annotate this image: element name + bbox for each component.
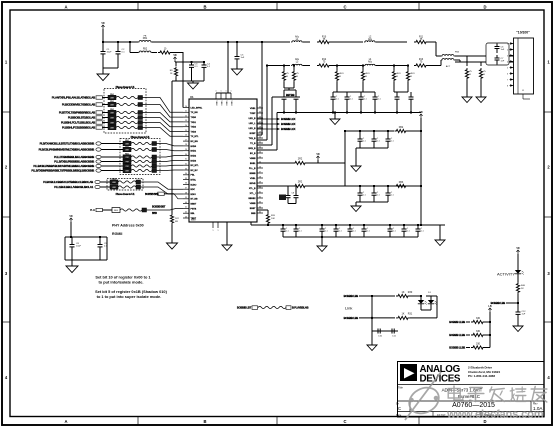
svg-text:LED_B: LED_B — [249, 118, 256, 120]
svg-text:R30: R30 — [408, 291, 413, 294]
svg-text:RN1: RN1 — [125, 162, 129, 164]
svg-text:TX_B: TX_B — [250, 143, 256, 145]
svg-text:BBBT: BBBT — [250, 208, 256, 210]
svg-text:BBBT: BBBT — [191, 204, 197, 206]
svg-text:PLL1/BHLBBLL/VBBCBL/BOLA1: PLL1/BHLBBLL/VBBCBL/BOLA1 — [54, 185, 93, 189]
svg-text:46: 46 — [259, 116, 261, 118]
svg-text:PLLB/TXBL/PBBB/BBLA/BBOBBIB: PLLB/TXBL/PBBB/BBLA/BBOBBIB — [54, 160, 94, 164]
svg-text:52: 52 — [259, 146, 261, 148]
svg-text:RN1: RN1 — [125, 158, 129, 160]
svg-text:"10/100": "10/100" — [516, 31, 530, 35]
svg-text:59: 59 — [259, 181, 261, 183]
svg-text:32: 32 — [185, 164, 187, 166]
svg-text:20: 20 — [185, 106, 187, 108]
svg-text:BXB1: BXB1 — [191, 151, 197, 153]
svg-text:44: 44 — [259, 106, 261, 108]
svg-text:BLB: BLB — [114, 210, 118, 212]
svg-text:50: 50 — [259, 136, 261, 138]
svg-text:TXBP: TXBP — [250, 113, 256, 115]
svg-text:BT_BB: BT_BB — [191, 199, 198, 201]
svg-text:5: 5 — [507, 67, 508, 69]
svg-text:C: C — [343, 419, 346, 424]
svg-text:B: B — [203, 419, 206, 424]
svg-text:RN1: RN1 — [110, 109, 114, 111]
svg-text:42: 42 — [185, 212, 187, 214]
svg-text:41: 41 — [185, 207, 187, 209]
svg-text:R11: R11 — [419, 37, 424, 39]
svg-text:VBB1: VBB1 — [250, 108, 256, 110]
svg-text:38: 38 — [185, 192, 187, 194]
svg-text:PLB/BOBLBT1/BOLAB: PLB/BOBLBT1/BOLAB — [68, 116, 95, 120]
svg-text:Place close to U1: Place close to U1 — [116, 85, 135, 89]
svg-text:www.elecfans.com: www.elecfans.com — [446, 409, 544, 421]
svg-text:Title: Title — [398, 386, 403, 390]
svg-text:53: 53 — [259, 151, 261, 153]
svg-text:58: 58 — [259, 176, 261, 178]
svg-text:33: 33 — [185, 168, 187, 170]
svg-text:56: 56 — [259, 166, 261, 168]
svg-text:BBB: BBB — [251, 213, 256, 215]
svg-text:RGMII: RGMII — [112, 232, 122, 236]
svg-text:FB2: FB2 — [143, 49, 148, 51]
svg-text:28: 28 — [185, 144, 187, 146]
svg-text:330: 330 — [476, 330, 481, 333]
svg-text:RN1: RN1 — [110, 114, 114, 116]
svg-text:1: 1 — [218, 230, 219, 232]
svg-text:VBB0: VBB0 — [215, 101, 217, 107]
svg-text:1nF: 1nF — [501, 49, 505, 51]
svg-text:Date: Date — [396, 414, 402, 417]
svg-text:21: 21 — [185, 111, 187, 113]
svg-text:2R2: 2R2 — [298, 158, 303, 161]
svg-text:BXB3: BXB3 — [191, 160, 197, 162]
svg-text:24: 24 — [185, 125, 187, 127]
svg-text:1: 1 — [507, 43, 508, 45]
svg-text:BOBBIB LBT: BOBBIB LBT — [237, 306, 252, 310]
svg-text:45: 45 — [259, 111, 261, 113]
svg-text:10K: 10K — [271, 218, 275, 220]
svg-text:TXB_B: TXB_B — [249, 138, 256, 140]
svg-text:10uF: 10uF — [107, 52, 113, 54]
svg-text:A0u: A0u — [295, 58, 300, 61]
svg-text:PLL_B: PLL_B — [249, 168, 256, 170]
svg-text:VD: VD — [516, 247, 520, 250]
svg-text:A: A — [64, 4, 67, 9]
svg-text:1: 1 — [221, 91, 222, 93]
svg-text:63: 63 — [259, 201, 261, 203]
svg-text:A0u: A0u — [295, 36, 300, 39]
svg-text:VD: VD — [419, 111, 423, 114]
svg-text:B PLAYBBLAB: B PLAYBBLAB — [292, 306, 309, 310]
svg-text:TXB3: TXB3 — [191, 131, 197, 133]
svg-text:29: 29 — [185, 149, 187, 151]
svg-text:BOBBIB LLBB: BOBBIB LLBB — [449, 320, 465, 324]
svg-text:BOBBIB LBB: BOBBIB LBB — [344, 294, 359, 298]
svg-text:43: 43 — [185, 216, 187, 218]
svg-text:BOBBIB LBB: BOBBIB LBB — [344, 316, 359, 320]
svg-text:BOBBIB LCX: BOBBIB LCX — [281, 127, 296, 131]
svg-text:ACT: ACT — [446, 65, 451, 68]
svg-text:PLAN/TXRL/PBLA/ALBLATN/BOLAB: PLAN/TXRL/PBLA/ALBLATN/BOLAB — [52, 96, 95, 100]
svg-text:VD: VD — [316, 153, 320, 156]
svg-text:1K: 1K — [402, 291, 405, 294]
svg-text:BBB1: BBB1 — [250, 163, 256, 165]
svg-text:PLLB/TXBM/PBBB/VBBLTX/TPBBBLB/: PLLB/TXBM/PBBB/VBBLTX/TPBBBLB/BBQLB/BOBB… — [31, 169, 94, 173]
svg-text:49: 49 — [259, 131, 261, 133]
svg-text:60: 60 — [259, 186, 261, 188]
svg-text:BX_BV: BX_BV — [191, 170, 199, 172]
svg-text:BBBB: BBBB — [250, 173, 256, 175]
svg-text:1uF: 1uF — [241, 57, 245, 59]
svg-text:PLLL/TXBM/BBBL/BHLA/BBOBBIB: PLLL/TXBM/BBBL/BHLA/BBOBBIB — [54, 155, 94, 159]
svg-text:RN1: RN1 — [125, 146, 129, 148]
svg-text:XTL_I: XTL_I — [250, 193, 256, 195]
svg-text:PHY Address 0x00: PHY Address 0x00 — [112, 224, 144, 228]
svg-text:BLBO: BLBO — [191, 184, 197, 186]
svg-text:62: 62 — [259, 196, 261, 198]
svg-text:R12: R12 — [322, 59, 327, 61]
svg-text:54: 54 — [259, 156, 261, 158]
svg-text:Ph: 1-800-444-4968: Ph: 1-800-444-4968 — [468, 374, 495, 378]
svg-text:U1: U1 — [190, 95, 194, 99]
svg-text:C: C — [343, 4, 346, 9]
svg-text:VD: VD — [69, 215, 73, 218]
svg-text:7: 7 — [507, 79, 508, 81]
svg-text:51: 51 — [259, 141, 261, 143]
svg-text:R13: R13 — [419, 59, 424, 61]
svg-text:3: 3 — [507, 55, 508, 57]
svg-text:40: 40 — [185, 202, 187, 204]
svg-text:BOBBIB BBT: BOBBIB BBT — [152, 206, 166, 209]
svg-text:39: 39 — [185, 197, 187, 199]
svg-text:4: 4 — [507, 61, 508, 63]
svg-text:PLBT/TXLTXB/PMBBR/BOLAB: PLBT/TXLTXB/PMBBR/BOLAB — [59, 111, 95, 115]
svg-text:10uF: 10uF — [76, 246, 82, 248]
svg-text:VBB3: VBB3 — [230, 101, 232, 107]
svg-text:FB2: FB2 — [399, 126, 404, 129]
svg-text:BOBBIB LCX: BOBBIB LCX — [281, 117, 296, 121]
svg-text:1: 1 — [213, 230, 214, 232]
svg-text:22: 22 — [185, 115, 187, 117]
svg-text:RN1: RN1 — [125, 167, 129, 169]
svg-text:BXB2: BXB2 — [191, 156, 197, 158]
svg-text:R31: R31 — [408, 313, 413, 316]
svg-text:RN1: RN1 — [112, 179, 116, 181]
svg-text:PLB/BHLFCL/TLBBL/BOLAB: PLB/BHLFCL/TLBBL/BOLAB — [61, 121, 95, 125]
svg-text:26: 26 — [185, 135, 187, 137]
svg-text:Place close to U1: Place close to U1 — [116, 192, 135, 196]
svg-text:ACTIVITY: ACTIVITY — [497, 272, 515, 277]
svg-text:6: 6 — [507, 73, 508, 75]
svg-text:65: 65 — [259, 211, 261, 213]
svg-text:RN1: RN1 — [112, 184, 116, 186]
svg-text:34: 34 — [185, 173, 187, 175]
svg-text:to put into/isolate mode.: to put into/isolate mode. — [99, 280, 144, 285]
svg-text:RN1: RN1 — [110, 119, 114, 121]
svg-text:FB3: FB3 — [399, 181, 404, 184]
svg-text:48: 48 — [259, 126, 261, 128]
svg-text:VD: VD — [101, 22, 105, 25]
svg-text:LED_B: LED_B — [249, 128, 256, 130]
svg-text:RN1: RN1 — [110, 124, 114, 126]
svg-text:61: 61 — [259, 191, 261, 193]
svg-text:1: 1 — [231, 91, 232, 93]
svg-text:BTBL: BTBL — [191, 180, 197, 182]
svg-text:TX_BTL: TX_BTL — [191, 136, 200, 138]
svg-text:B: B — [203, 4, 206, 9]
svg-text:D: D — [483, 4, 486, 9]
svg-text:R10: R10 — [322, 37, 327, 39]
svg-text:PLB: PLB — [90, 208, 95, 212]
svg-text:57: 57 — [259, 171, 261, 173]
svg-text:330: 330 — [476, 317, 481, 320]
svg-text:1: 1 — [226, 91, 227, 93]
svg-text:PLB/CDEM/VBLTXB/BOLAB: PLB/CDEM/VBLTXB/BOLAB — [62, 103, 95, 107]
svg-text:BBBT: BBBT — [191, 220, 197, 222]
svg-text:31: 31 — [185, 159, 187, 161]
svg-text:37: 37 — [185, 188, 187, 190]
svg-text:30: 30 — [185, 154, 187, 156]
svg-text:TX_BN: TX_BN — [191, 112, 198, 114]
svg-text:27: 27 — [185, 139, 187, 141]
svg-text:A: A — [64, 419, 67, 424]
svg-text:PLB/BHL/FCB1BBB/BOLAB: PLB/BHL/FCB1BBB/BOLAB — [62, 126, 95, 130]
svg-text:PBTB: PBTB — [191, 208, 197, 210]
svg-text:8: 8 — [507, 85, 508, 87]
svg-text:C: C — [398, 406, 401, 411]
svg-text:47: 47 — [259, 121, 261, 123]
svg-text:BXB_B: BXB_B — [248, 148, 256, 150]
svg-text:VBB2: VBB2 — [225, 101, 227, 107]
svg-text:35: 35 — [185, 178, 187, 180]
svg-text:RN1: RN1 — [125, 140, 129, 142]
svg-text:BX_B: BX_B — [250, 153, 256, 155]
svg-text:BX_BN: BX_BN — [191, 141, 199, 143]
svg-text:2: 2 — [507, 49, 508, 51]
svg-text:BDIO: BDIO — [191, 194, 197, 196]
svg-text:TXB0: TXB0 — [191, 117, 197, 119]
svg-text:BOBBIB LLBB: BOBBIB LLBB — [449, 346, 465, 350]
svg-text:LED_B/PBL: LED_B/PBL — [191, 107, 203, 109]
svg-text:Link: Link — [345, 306, 352, 311]
svg-text:RN1: RN1 — [110, 94, 114, 96]
svg-text:BBBB2: BBBB2 — [248, 198, 256, 200]
svg-text:PLB/TXAM/CBLL/LBTD/TL/TXB/BOLA: PLB/TXAM/CBLL/LBTD/TL/TXB/BOLA/BBOBBIB — [40, 142, 95, 146]
svg-text:1: 1 — [216, 91, 217, 93]
svg-text:BBB: BBB — [152, 212, 157, 215]
svg-text:TXB1: TXB1 — [191, 122, 197, 124]
svg-text:36: 36 — [185, 183, 187, 185]
svg-text:1nF: 1nF — [501, 61, 505, 63]
svg-text:LB: LB — [488, 305, 491, 308]
svg-text:Place close to U1: Place close to U1 — [131, 135, 150, 139]
svg-text:PLLB/CBL/PBBB/VBLM/CVBTM/LBB/B: PLLB/CBL/PBBB/VBLM/CVBTM/LBB/BHLA/BBOBBI… — [33, 164, 94, 168]
svg-text:1/17/17: 1/17/17 — [437, 414, 446, 417]
svg-text:DEVICES: DEVICES — [420, 373, 461, 384]
svg-text:23: 23 — [185, 120, 187, 122]
svg-text:BOBBIB LBB: BOBBIB LBB — [491, 301, 506, 305]
svg-text:PLB/CBL/LCBB/HCLRTB/BBLCLB/BOL: PLB/CBL/LCBB/HCLRTB/BBLCLB/BOLAB — [43, 180, 93, 184]
svg-text:2R2: 2R2 — [298, 181, 303, 184]
svg-text:TXB2: TXB2 — [191, 127, 197, 129]
svg-text:BOBBIB LCX: BOBBIB LCX — [281, 122, 296, 126]
svg-text:PLB/CBL/PHBM/NBV/BTM/LTXB/BHLA: PLB/CBL/PHBM/NBV/BTM/LTXB/BHLA/BBOBBIB — [39, 148, 95, 152]
svg-text:BXBP: BXBP — [250, 133, 256, 135]
svg-text:LED_L: LED_L — [249, 123, 256, 125]
svg-text:BX_BTL: BX_BTL — [191, 165, 200, 167]
svg-text:330: 330 — [476, 342, 481, 345]
svg-text:VBBL: VBBL — [250, 178, 256, 180]
svg-text:BBT BB: BBT BB — [286, 93, 295, 97]
svg-text:FB1: FB1 — [143, 37, 148, 40]
svg-text:Burve#81C: Burve#81C — [458, 394, 480, 399]
svg-text:VBB1: VBB1 — [220, 101, 222, 107]
svg-text:VBBB: VBBB — [250, 158, 256, 160]
svg-text:RN1: RN1 — [125, 153, 129, 155]
svg-text:VD: VD — [173, 54, 177, 57]
svg-text:BDC: BDC — [191, 189, 196, 191]
svg-text:XTL_B: XTL_B — [249, 188, 256, 190]
svg-text:BOBBIB LLBB: BOBBIB LLBB — [449, 333, 465, 337]
svg-text:1K: 1K — [402, 313, 405, 316]
svg-text:25: 25 — [185, 130, 187, 132]
svg-text:BOBBIB BBB: BOBBIB BBB — [145, 193, 159, 196]
svg-text:BXB0: BXB0 — [191, 146, 197, 148]
svg-text:to 1 to put into super isolate: to 1 to put into super isolate mode. — [97, 294, 162, 299]
svg-text:1uF: 1uF — [522, 313, 526, 315]
svg-text:RN1: RN1 — [110, 101, 114, 103]
svg-text:BBVB: BBVB — [250, 183, 256, 185]
svg-text:VBBB: VBBB — [250, 203, 256, 205]
svg-text:64: 64 — [259, 206, 261, 208]
